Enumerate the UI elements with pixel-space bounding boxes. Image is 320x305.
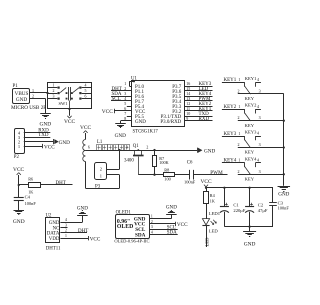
svg-text:1: 1 bbox=[32, 88, 34, 93]
svg-text:GND: GND bbox=[166, 204, 177, 210]
svg-text:STC8G1K17: STC8G1K17 bbox=[133, 129, 159, 134]
svg-text:GND: GND bbox=[39, 121, 51, 127]
svg-text:220μF: 220μF bbox=[233, 208, 245, 213]
svg-text:1: 1 bbox=[238, 104, 240, 109]
svg-text:3: 3 bbox=[65, 223, 67, 227]
svg-text:100nF: 100nF bbox=[25, 201, 37, 206]
svg-text:GND: GND bbox=[77, 205, 88, 211]
svg-text:1K: 1K bbox=[210, 199, 215, 204]
svg-text:1: 1 bbox=[238, 131, 240, 136]
svg-text:1: 1 bbox=[238, 158, 240, 163]
svg-text:KEY3: KEY3 bbox=[245, 130, 257, 135]
svg-text:KEY: KEY bbox=[245, 176, 255, 181]
svg-text:P1: P1 bbox=[13, 84, 19, 89]
svg-text:KEY3: KEY3 bbox=[224, 132, 237, 137]
svg-text:DHT11: DHT11 bbox=[46, 247, 61, 252]
svg-text:4: 4 bbox=[85, 83, 87, 87]
svg-text:GND: GND bbox=[49, 221, 60, 226]
svg-text:P2: P2 bbox=[14, 155, 20, 160]
svg-text:47μF: 47μF bbox=[258, 208, 268, 213]
svg-text:VCC: VCC bbox=[44, 144, 55, 150]
svg-text:C1: C1 bbox=[233, 203, 239, 208]
svg-text:GND: GND bbox=[59, 140, 70, 146]
svg-text:2: 2 bbox=[100, 166, 102, 171]
svg-text:2: 2 bbox=[238, 169, 240, 174]
svg-text:TXD: TXD bbox=[38, 133, 49, 138]
svg-text:VDD: VDD bbox=[49, 237, 60, 242]
svg-text:100K: 100K bbox=[159, 160, 168, 165]
svg-text:1: 1 bbox=[53, 83, 55, 87]
svg-text:4: 4 bbox=[257, 158, 259, 163]
svg-text:3400: 3400 bbox=[124, 159, 134, 164]
svg-text:DATA: DATA bbox=[47, 232, 60, 237]
svg-text:3: 3 bbox=[126, 145, 128, 149]
svg-text:SCL: SCL bbox=[112, 97, 121, 102]
svg-text:9: 9 bbox=[186, 116, 188, 121]
svg-text:2: 2 bbox=[53, 89, 55, 93]
svg-text:SDA: SDA bbox=[167, 231, 177, 236]
svg-text:VCC: VCC bbox=[200, 179, 211, 185]
svg-text:2: 2 bbox=[146, 145, 148, 149]
svg-text:NC: NC bbox=[53, 226, 60, 231]
svg-text:2: 2 bbox=[238, 88, 240, 93]
svg-text:Q1: Q1 bbox=[133, 144, 139, 149]
svg-text:OLED-0.96-4P-IIC: OLED-0.96-4P-IIC bbox=[114, 238, 149, 243]
svg-text:VCC: VCC bbox=[64, 119, 75, 125]
svg-text:OLED: OLED bbox=[117, 224, 133, 230]
svg-text:6: 6 bbox=[88, 145, 90, 149]
svg-text:4: 4 bbox=[257, 104, 259, 109]
svg-text:GND: GND bbox=[115, 133, 126, 139]
svg-text:3: 3 bbox=[151, 225, 153, 229]
svg-text:100: 100 bbox=[164, 176, 170, 181]
svg-text:LED1: LED1 bbox=[209, 211, 221, 216]
svg-text:KEY1: KEY1 bbox=[224, 78, 237, 83]
svg-text:RXD: RXD bbox=[199, 117, 210, 122]
svg-text:GND: GND bbox=[135, 120, 146, 125]
svg-text:GND: GND bbox=[13, 219, 25, 225]
svg-text:3: 3 bbox=[259, 142, 261, 147]
svg-text:4: 4 bbox=[151, 230, 153, 234]
svg-text:GND: GND bbox=[16, 97, 27, 103]
svg-text:1: 1 bbox=[18, 144, 20, 149]
svg-text:VCC: VCC bbox=[177, 222, 188, 228]
svg-text:SCL: SCL bbox=[167, 225, 176, 230]
svg-text:LED: LED bbox=[204, 237, 209, 247]
svg-text:5: 5 bbox=[85, 89, 87, 93]
svg-text:PWM: PWM bbox=[210, 170, 223, 176]
svg-text:VCC: VCC bbox=[102, 109, 113, 115]
svg-text:LED: LED bbox=[209, 228, 219, 233]
svg-text:DHT: DHT bbox=[56, 181, 66, 186]
svg-text:KEY2: KEY2 bbox=[245, 103, 257, 108]
svg-text:KEY1: KEY1 bbox=[245, 76, 257, 81]
svg-text:4: 4 bbox=[257, 131, 259, 136]
svg-text:3: 3 bbox=[259, 115, 261, 120]
svg-text:1: 1 bbox=[238, 77, 240, 82]
svg-text:2: 2 bbox=[32, 94, 34, 99]
svg-text:P3.0/RXD: P3.0/RXD bbox=[160, 120, 181, 125]
svg-text:SDA: SDA bbox=[135, 232, 146, 238]
svg-text:KEY2: KEY2 bbox=[224, 105, 237, 110]
svg-text:VCC: VCC bbox=[90, 236, 101, 242]
svg-text:2: 2 bbox=[238, 142, 240, 147]
svg-text:100nF: 100nF bbox=[184, 180, 196, 185]
svg-text:VCC: VCC bbox=[80, 125, 91, 131]
svg-text:SW1: SW1 bbox=[59, 101, 68, 106]
svg-text:C2: C2 bbox=[258, 203, 264, 208]
svg-text:3: 3 bbox=[259, 169, 261, 174]
svg-text:2: 2 bbox=[238, 115, 240, 120]
svg-text:GND: GND bbox=[278, 191, 289, 197]
svg-text:KEY: KEY bbox=[245, 96, 255, 101]
svg-text:GND: GND bbox=[204, 148, 215, 154]
svg-text:3: 3 bbox=[53, 94, 55, 98]
svg-text:1: 1 bbox=[65, 234, 67, 238]
svg-text:3: 3 bbox=[259, 88, 261, 93]
svg-text:KEY4: KEY4 bbox=[245, 156, 257, 161]
svg-text:6: 6 bbox=[85, 94, 87, 98]
svg-text:C4: C4 bbox=[25, 195, 31, 200]
svg-text:1: 1 bbox=[100, 173, 102, 178]
svg-text:KEY: KEY bbox=[245, 123, 255, 128]
svg-text:GND: GND bbox=[244, 242, 256, 248]
svg-text:DHT: DHT bbox=[78, 229, 88, 234]
svg-text:4: 4 bbox=[257, 77, 259, 82]
svg-text:4: 4 bbox=[65, 218, 67, 222]
svg-text:R6: R6 bbox=[28, 177, 33, 182]
svg-text:1: 1 bbox=[151, 215, 153, 219]
svg-text:VCC: VCC bbox=[13, 167, 24, 173]
svg-text:100nF: 100nF bbox=[278, 205, 290, 210]
svg-text:KEY4: KEY4 bbox=[224, 159, 237, 164]
svg-text:R8: R8 bbox=[164, 167, 169, 172]
svg-text:C6: C6 bbox=[187, 161, 193, 166]
svg-text:KEY: KEY bbox=[245, 150, 255, 155]
svg-text:MICRO USB 2P: MICRO USB 2P bbox=[11, 105, 46, 111]
